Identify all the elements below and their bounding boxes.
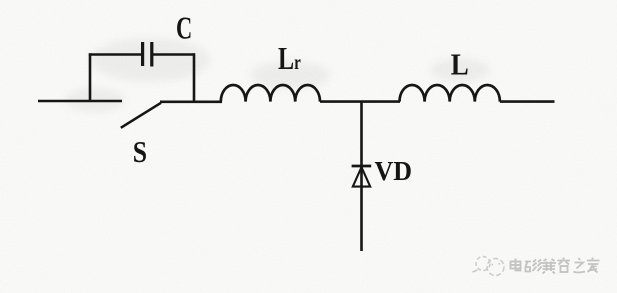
glyph 之 <box>574 258 586 272</box>
capacitor C right plate <box>150 42 153 67</box>
wire: capacitor branch right leg <box>193 53 196 102</box>
svg-text:L: L <box>451 46 469 81</box>
watermark logo circles <box>473 257 505 276</box>
inductor Lr <box>221 85 320 102</box>
wire: left input lead <box>38 100 122 103</box>
inductor L <box>400 85 500 102</box>
wire: capacitor branch top left <box>89 53 141 56</box>
wire: Lr to L with node <box>320 100 400 103</box>
svg-text:C: C <box>176 10 192 46</box>
watermark text 电磁兼容之家 (drawn strokes) <box>511 258 600 274</box>
svg-text:S: S <box>133 134 147 169</box>
diode VD cathode bar <box>352 165 372 168</box>
wire: right output lead <box>500 100 555 103</box>
glyph 磁 <box>525 260 542 272</box>
wire: switch pivot to Lr <box>160 101 222 104</box>
wire: capacitor branch left leg <box>89 53 92 101</box>
wire: diode branch vertical <box>360 102 363 251</box>
glyph 容 <box>558 258 571 273</box>
switch S blade <box>121 103 161 128</box>
glyph 兼 <box>542 259 557 274</box>
wire: capacitor branch top right <box>153 53 195 56</box>
capacitor C left plate <box>141 42 144 66</box>
glyph 家 <box>587 258 600 273</box>
diode VD triangle <box>353 167 370 186</box>
svg-text:VD: VD <box>375 156 413 186</box>
glyph 电 <box>511 259 521 271</box>
